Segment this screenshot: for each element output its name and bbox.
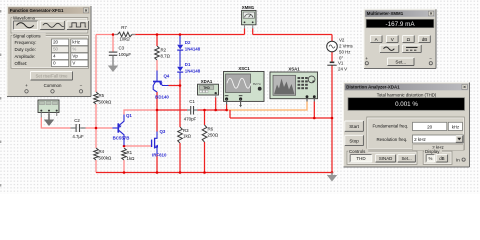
- svg-text:C2: C2: [74, 118, 80, 123]
- svg-text:kHz: kHz: [72, 40, 80, 45]
- wire R6 to bottom rail: [204, 142, 206, 173]
- wire bottom rail: [96, 172, 332, 174]
- svg-text:Set...: Set...: [401, 156, 411, 161]
- svg-text:SINAD: SINAD: [379, 156, 392, 161]
- node Q1 collector / R1 / gate: [123, 145, 126, 148]
- svg-text:20: 20: [53, 40, 58, 45]
- svg-text:×: ×: [85, 8, 88, 13]
- svg-text:10kΩ: 10kΩ: [119, 37, 130, 42]
- svg-text:XSA1: XSA1: [288, 66, 300, 71]
- source V2 AC: [327, 38, 354, 61]
- node output at XSC1 A: [225, 109, 228, 112]
- svg-text:THD: THD: [203, 86, 210, 90]
- instrument icon XFG1 function generator: [38, 100, 59, 118]
- svg-text:D2: D2: [185, 40, 191, 45]
- node R2 tap: [156, 33, 159, 36]
- node ground at XSA1 T: [313, 117, 316, 120]
- resistor R5: [94, 92, 112, 105]
- svg-text:Waveforms: Waveforms: [13, 15, 36, 20]
- svg-text:Set...: Set...: [395, 60, 406, 65]
- svg-text:BC557B: BC557B: [113, 136, 130, 141]
- svg-text:BD140: BD140: [155, 95, 169, 100]
- wire XFG1 output to C2: [41, 118, 70, 129]
- resistor R6: [202, 125, 219, 142]
- panel Distortion Analyzer XDA1: [344, 83, 470, 168]
- svg-text:R6: R6: [208, 127, 214, 132]
- svg-text:Duty cycle:: Duty cycle:: [15, 47, 36, 52]
- svg-text:dB: dB: [439, 156, 444, 161]
- wire XMM1 minus riser: [252, 29, 254, 35]
- svg-text:%: %: [72, 47, 76, 52]
- capacitor C2: [71, 118, 86, 139]
- svg-text:Resolution freq.: Resolution freq.: [377, 137, 408, 142]
- svg-text:Total harmonic distortion (THD: Total harmonic distortion (THD): [377, 93, 437, 98]
- svg-text:500kΩ: 500kΩ: [99, 100, 113, 105]
- node bottom rail Q3: [156, 171, 159, 174]
- wire V source column upper: [331, 35, 333, 42]
- svg-text:C1: C1: [189, 99, 195, 104]
- resistor R3: [178, 127, 192, 143]
- svg-text:Distortion Analyzer-XDA1: Distortion Analyzer-XDA1: [346, 85, 400, 90]
- node output at R6: [203, 109, 206, 112]
- svg-text:Controls: Controls: [349, 149, 366, 154]
- svg-text:Amplitude:: Amplitude:: [15, 54, 36, 59]
- panel Multimeter XMM1: [364, 9, 436, 68]
- svg-text:470pF: 470pF: [184, 117, 197, 122]
- resistor R1: [122, 148, 135, 161]
- svg-text:4.7μF: 4.7μF: [72, 134, 84, 139]
- svg-text:Stop: Stop: [349, 138, 359, 143]
- svg-text:Set rise/Fall time: Set rise/Fall time: [36, 74, 69, 79]
- wire XMM1 plus riser: [244, 29, 246, 35]
- svg-text:THD: THD: [356, 156, 366, 161]
- wire Q4 to output node: [156, 92, 158, 110]
- wire Q4 emitter to diode column: [169, 85, 181, 87]
- svg-text:Q4: Q4: [164, 74, 170, 79]
- svg-text:Display: Display: [425, 149, 440, 154]
- node bottom rail ground: [331, 171, 334, 174]
- svg-text:500kΩ: 500kΩ: [99, 156, 113, 161]
- instrument icon XSA1 spectrum analyzer: [270, 66, 318, 101]
- wire top supply rail (R7 to XMM1 plus): [132, 34, 245, 36]
- svg-text:R5: R5: [99, 93, 105, 98]
- svg-text:C3: C3: [119, 46, 125, 51]
- ground below C3: [108, 60, 118, 73]
- svg-text:×: ×: [430, 11, 433, 16]
- svg-text:1N4148: 1N4148: [185, 46, 201, 51]
- node ground at V column: [331, 117, 334, 120]
- wire left bias rail lower: [95, 160, 97, 173]
- wire D1 tail: [179, 73, 181, 80]
- svg-text:%: %: [428, 156, 432, 161]
- svg-text:×: ×: [463, 84, 466, 89]
- svg-text:Start: Start: [349, 124, 359, 129]
- svg-text:100μF: 100μF: [119, 52, 132, 57]
- svg-text:24 V: 24 V: [338, 67, 347, 72]
- wire D2 to D1: [179, 51, 181, 67]
- svg-text:kHz: kHz: [452, 125, 459, 130]
- wire XSC1 A riser: [226, 105, 228, 111]
- node diode column tap: [179, 33, 182, 36]
- wire R1 junction to Q3 gate: [124, 145, 151, 147]
- svg-text:250Ω: 250Ω: [208, 133, 219, 138]
- svg-text:V2: V2: [339, 38, 345, 43]
- capacitor C3: [109, 46, 132, 60]
- svg-text:Signal options: Signal options: [13, 33, 41, 38]
- svg-text:Ω: Ω: [407, 37, 411, 42]
- svg-text:-167.9 mA: -167.9 mA: [385, 21, 415, 28]
- svg-text:Multimeter-XMM1: Multimeter-XMM1: [367, 11, 404, 16]
- svg-text:8.7Ω: 8.7Ω: [161, 54, 171, 59]
- wire R2 to Q4 base: [156, 60, 158, 71]
- resistor R4: [94, 148, 112, 161]
- svg-text:R2: R2: [161, 48, 167, 53]
- svg-text:Fundamental freq.: Fundamental freq.: [373, 123, 409, 128]
- svg-text:V1: V1: [338, 61, 344, 66]
- wire Q3 drain: [156, 110, 158, 132]
- svg-text:1N4148: 1N4148: [185, 68, 201, 73]
- svg-text:R3: R3: [183, 128, 189, 133]
- wire top supply rail (XMM1 minus to V2): [253, 34, 332, 36]
- svg-text:50: 50: [53, 47, 58, 52]
- resistor R7: [114, 25, 136, 42]
- wire output node left of C1: [157, 109, 187, 111]
- svg-text:50 Hz: 50 Hz: [339, 50, 350, 55]
- wire ground return run: [230, 117, 332, 119]
- svg-text:0.001 %: 0.001 %: [395, 101, 418, 108]
- svg-text:+: +: [365, 56, 368, 61]
- wire C3 riser: [112, 35, 114, 52]
- wire Q3 source to bottom rail: [156, 154, 158, 173]
- wire diode column to R3: [179, 80, 181, 128]
- panel Function Generator XFG1: [7, 6, 91, 97]
- capacitor C1: [184, 99, 198, 122]
- transistor Q1 BC557B: [113, 113, 133, 146]
- sheet border dashes: [0, 0, 2, 194]
- transistor Q3 IRF610: [152, 129, 167, 158]
- svg-text:2 kHz: 2 kHz: [414, 137, 426, 142]
- node output at XDA1: [214, 109, 217, 112]
- svg-text:R1: R1: [127, 150, 133, 155]
- wire XSA1 T riser: [313, 102, 315, 119]
- svg-text:1kΩ: 1kΩ: [183, 134, 192, 139]
- source V1 battery 24V: [327, 61, 347, 72]
- wire scope-node drop: [229, 110, 231, 118]
- svg-text:Vp: Vp: [72, 54, 78, 59]
- diode D1: [177, 62, 201, 73]
- svg-text:Function Generator-XFG1: Function Generator-XFG1: [10, 8, 64, 13]
- svg-text:XSC1: XSC1: [238, 66, 250, 71]
- wire Q1 emitter riser to output node: [124, 110, 157, 115]
- instrument icon XMM1 multimeter: [242, 5, 256, 29]
- diode D2: [177, 40, 201, 51]
- wire V1 to ground: [331, 66, 333, 173]
- wire left bias rail middle: [95, 104, 97, 148]
- wire diode column top: [179, 35, 181, 45]
- svg-text:In: In: [456, 157, 460, 162]
- wire output node right of C1: [198, 109, 227, 111]
- node C3 tap: [112, 33, 115, 36]
- ground at XFG1 common: [44, 114, 54, 127]
- wire R3 to bottom rail: [179, 143, 181, 173]
- svg-text:+: +: [25, 83, 28, 88]
- instrument icon XSC1 oscilloscope: [224, 66, 265, 107]
- svg-text:20: 20: [427, 125, 433, 130]
- instrument icon XDA1 distortion analyzer: [198, 79, 219, 98]
- wire C2 to Q1 base: [86, 127, 113, 129]
- svg-text:Q1: Q1: [126, 113, 132, 118]
- node output at Q3 drain: [156, 109, 159, 112]
- wire top supply rail (salmon left segment): [96, 34, 118, 36]
- wire R2 feed from rail: [156, 35, 158, 47]
- wire R1 to bottom rail: [123, 160, 125, 173]
- svg-text:R7: R7: [121, 25, 127, 30]
- wire left bias rail upper: [95, 35, 97, 93]
- ground at V column: [327, 173, 337, 182]
- svg-text:8V/7m: 8V/7m: [253, 82, 262, 86]
- svg-text:Frequency:: Frequency:: [15, 40, 37, 45]
- wire R6 riser: [204, 110, 206, 125]
- wire XDA1 probe riser: [215, 98, 217, 111]
- svg-text:XDA1: XDA1: [201, 79, 213, 84]
- svg-text:Common: Common: [44, 83, 62, 88]
- node bias divider: [95, 127, 98, 130]
- node bottom rail R3: [179, 171, 182, 174]
- svg-text:Offset:: Offset:: [15, 61, 28, 66]
- svg-text:2 Vrms: 2 Vrms: [339, 44, 354, 49]
- svg-text:R4: R4: [99, 149, 105, 154]
- wire V2 to V1: [331, 52, 333, 62]
- svg-text:Q3: Q3: [160, 129, 166, 134]
- node bottom rail R6: [203, 171, 206, 174]
- node Q4 emitter / diode: [179, 84, 182, 87]
- node bottom rail R1: [123, 171, 126, 174]
- svg-text:dB: dB: [422, 37, 428, 42]
- svg-text:D1: D1: [185, 62, 191, 67]
- svg-text:XMM1: XMM1: [242, 5, 255, 10]
- svg-text:−: −: [80, 83, 83, 88]
- resistor R2: [155, 46, 171, 60]
- svg-text:V: V: [72, 61, 75, 66]
- wire output node to XSA1 IN (orange): [227, 102, 307, 111]
- svg-text:IRF610: IRF610: [152, 153, 167, 158]
- svg-text:−: −: [429, 56, 432, 61]
- svg-text:1kΩ: 1kΩ: [127, 156, 136, 161]
- transistor Q4 BD140: [153, 71, 170, 100]
